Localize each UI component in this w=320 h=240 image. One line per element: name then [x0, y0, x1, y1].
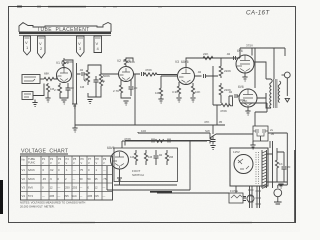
pilot lamp wires [138, 132, 210, 144]
wire grid to V1 [55, 76, 57, 79]
triode V1 [56, 61, 72, 83]
output transformer T1 [266, 48, 281, 108]
fuse box F1 [229, 189, 243, 203]
ground (switch) [210, 146, 215, 150]
ground (trem) [117, 178, 122, 182]
tube V3 (placement) [77, 36, 85, 57]
ground (jack shell) [32, 100, 37, 107]
plate resistor R3 [62, 59, 73, 69]
output tube V4a 6V6 [236, 49, 254, 73]
wire jack1 to grid [40, 78, 44, 80]
table row V1 [22, 168, 107, 172]
resistor R2 [46, 83, 54, 94]
plug P1 [243, 195, 254, 202]
mains vertical wires [224, 133, 287, 185]
grid resistor R10 [155, 76, 163, 99]
foot switch label [132, 169, 144, 177]
resistor R1 [44, 72, 57, 81]
ground bus wire [75, 124, 225, 126]
scan artifact bar [0, 180, 3, 214]
inverter resistor R15 [219, 83, 231, 103]
wire to V3 grid [161, 75, 178, 77]
plug P2 [274, 185, 282, 204]
inverter resistor R14 [219, 58, 231, 78]
tone cap C3 [94, 76, 99, 86]
plate resistor R7 [124, 58, 135, 67]
ground (filter) [278, 184, 283, 188]
electrolytic can C21 [248, 186, 254, 208]
tremolo tube V5 [107, 146, 129, 169]
heater wire B [125, 141, 206, 146]
rectifier wires [267, 148, 273, 188]
coupling cap C5 [135, 72, 144, 76]
table row V2 [22, 177, 107, 181]
shielded lead wires [64, 58, 77, 104]
screen resistor R12 [191, 83, 200, 97]
cathode grounds (output tubes) [242, 73, 250, 115]
tone pot R6 [99, 72, 110, 88]
volume pot R5 [80, 67, 90, 89]
title CA-16T [246, 10, 270, 17]
speaker SP [282, 72, 291, 78]
voltage chart title [20, 149, 69, 155]
transformer core hatch [262, 150, 267, 189]
table footnotes [20, 201, 85, 209]
ground (shield) [72, 104, 77, 108]
trem resistor R20 [130, 150, 138, 165]
triode V2 [117, 59, 134, 82]
ground (filter) [250, 136, 260, 149]
ground (bus) [72, 104, 77, 132]
resistor R9 [144, 68, 177, 76]
trem resistor R21 [144, 150, 152, 165]
table header text [22, 157, 107, 165]
tremolo resistor Rt [155, 140, 164, 143]
input jack J2 [22, 92, 33, 100]
tremolo top wire [122, 137, 207, 148]
heater wire A [138, 129, 210, 133]
line filter box [253, 126, 275, 141]
plate wires to OT [254, 62, 266, 98]
grid cap C7 [226, 52, 237, 60]
ground (R12) [190, 98, 195, 102]
hum balance wires [204, 99, 267, 126]
chassis label TUBE PLACEMENT [37, 27, 90, 33]
supply node resistor R13 [203, 52, 213, 60]
motor circle M1 [234, 155, 253, 174]
wire jack2 up [33, 84, 44, 96]
screen rail [240, 44, 285, 89]
transformer winding dots [256, 152, 259, 184]
bypass cap C4 [129, 80, 138, 96]
ground (V3 cathode) [176, 98, 181, 102]
heater cap Cb [168, 139, 170, 143]
output tube V4b 6V6 [238, 85, 257, 107]
tube V2 (placement) [38, 36, 46, 58]
trem cap C10 [154, 150, 163, 165]
power transformer box [230, 148, 268, 186]
ground (input) [45, 94, 50, 102]
electrolytic can C22 [256, 186, 262, 208]
cap C9 [211, 136, 216, 145]
triode V3 [175, 60, 195, 85]
wire inverter tap [213, 66, 221, 125]
cathode resistor R4 [54, 83, 62, 95]
power cord wire [150, 186, 246, 198]
wire V2 cathode bus [134, 74, 136, 125]
ground (R10) [158, 99, 163, 103]
chassis (tube placement strip) [19, 23, 111, 36]
trem resistor R22 [165, 150, 173, 165]
B+ rail wire [186, 58, 240, 68]
grid cap C8 [228, 90, 240, 98]
cathode resistor R8 [113, 80, 123, 96]
speaker return wire [285, 78, 289, 102]
filter cap C20 [282, 160, 291, 175]
coupling cap C6 [195, 70, 219, 78]
ground (V1 cathode) [60, 94, 68, 104]
wire lower grid [228, 96, 230, 105]
switch SW1 [205, 125, 224, 140]
tremolo box [114, 148, 178, 182]
cathode bypass cap C1 [66, 83, 75, 94]
voltage chart table [21, 156, 113, 200]
tube V1 (placement) [24, 36, 31, 55]
filter resistor R30 [275, 156, 282, 172]
heater cap Ca [152, 139, 154, 143]
trem bottom wires [107, 141, 190, 190]
table row V3 [22, 186, 106, 190]
input jack J1 [22, 75, 40, 84]
tube V4 (placement) [94, 36, 102, 53]
wire pot to V2 grid [88, 65, 119, 74]
ground (V2 cathode) [121, 96, 131, 105]
ground (tone) [87, 86, 101, 104]
resistor R16 [220, 97, 233, 113]
coupling cap C2 [77, 68, 88, 76]
filter wires right [273, 148, 288, 182]
table row V4 [22, 194, 106, 198]
cathode resistor R11 [172, 82, 181, 97]
